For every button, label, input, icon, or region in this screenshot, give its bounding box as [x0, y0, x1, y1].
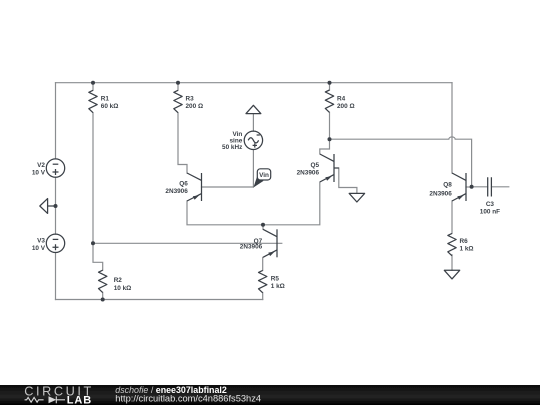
- svg-text:R3: R3: [186, 95, 195, 102]
- svg-text:10 V: 10 V: [32, 170, 46, 177]
- svg-text:Q6: Q6: [179, 181, 188, 188]
- svg-text:10 kΩ: 10 kΩ: [114, 285, 132, 292]
- svg-text:10 V: 10 V: [32, 245, 46, 252]
- svg-text:R4: R4: [337, 95, 346, 102]
- svg-text:2N3906: 2N3906: [429, 190, 452, 197]
- svg-text:C3: C3: [486, 201, 495, 208]
- svg-text:Vin: Vin: [259, 172, 269, 179]
- svg-text:100 nF: 100 nF: [480, 209, 500, 216]
- svg-text:50 kHz: 50 kHz: [222, 144, 242, 151]
- svg-text:http://circuitlab.com/c4n886fs: http://circuitlab.com/c4n886fs53hz4: [115, 394, 261, 404]
- svg-text:2N3906: 2N3906: [297, 170, 320, 177]
- svg-text:R1: R1: [101, 95, 110, 102]
- svg-text:200 Ω: 200 Ω: [337, 103, 355, 110]
- svg-text:1 kΩ: 1 kΩ: [460, 245, 474, 252]
- svg-text:V3: V3: [37, 237, 45, 244]
- svg-text:2N3906: 2N3906: [240, 244, 263, 251]
- svg-text:R5: R5: [271, 276, 280, 283]
- svg-text:V2: V2: [37, 162, 45, 169]
- svg-text:R6: R6: [460, 238, 469, 245]
- svg-text:Q5: Q5: [310, 162, 319, 169]
- svg-text:Q8: Q8: [443, 182, 452, 189]
- svg-text:60 kΩ: 60 kΩ: [101, 103, 119, 110]
- svg-text:200 Ω: 200 Ω: [186, 103, 204, 110]
- svg-text:LAB: LAB: [67, 395, 92, 405]
- svg-text:R2: R2: [114, 277, 123, 284]
- svg-text:2N3906: 2N3906: [165, 188, 188, 195]
- svg-text:1 kΩ: 1 kΩ: [271, 283, 285, 290]
